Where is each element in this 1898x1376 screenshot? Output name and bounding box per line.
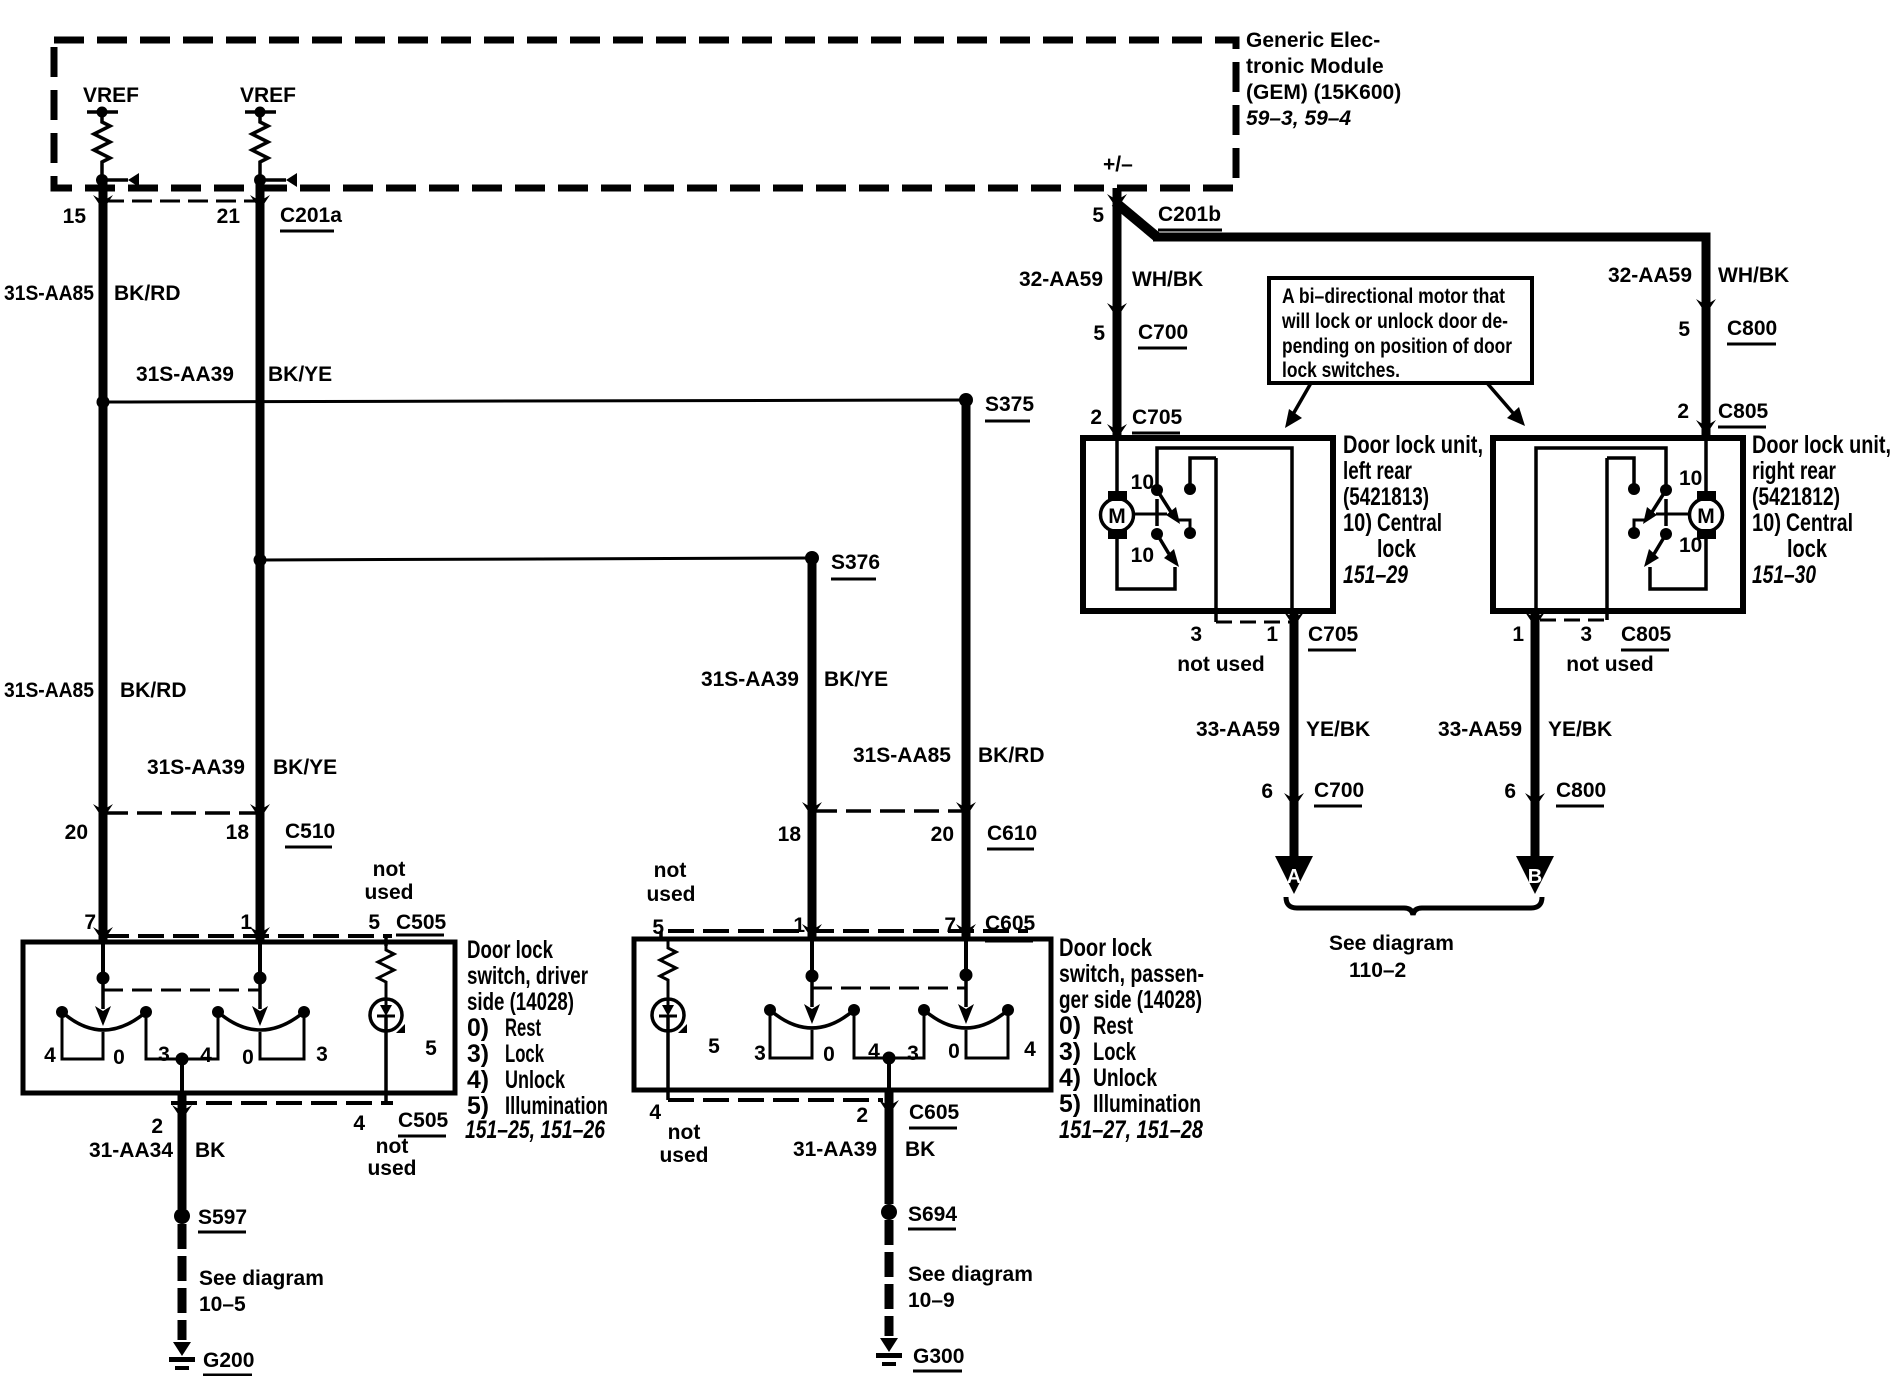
svg-text:BK/YE: BK/YE: [268, 363, 332, 386]
switch 2 rocker arc (driver): [218, 1012, 304, 1030]
off-page arrow A: [1275, 856, 1313, 894]
motor M circle (left unit): [1101, 499, 1134, 532]
svg-text:32-AA59: 32-AA59: [1019, 268, 1103, 291]
svg-text:5: 5: [1678, 318, 1690, 341]
label wire 33-AA59 YE/BK (left): [1196, 718, 1370, 741]
switch 2 rocker arc (passenger): [924, 1010, 1008, 1028]
svg-text:10–9: 10–9: [908, 1289, 955, 1312]
splice S694 label: [908, 1203, 957, 1229]
connector C805 label (bottom): [1621, 623, 1672, 650]
pin arrowhead C605 pin 7: [956, 924, 976, 939]
svg-text:3: 3: [316, 1043, 328, 1066]
label not used above driver pin 5: [364, 858, 413, 904]
label wire 32-AA59 WH/BK (left): [1019, 268, 1203, 291]
pin arrowhead C800 pin 6: [1525, 793, 1545, 808]
svg-text:10: 10: [1131, 471, 1154, 494]
svg-text:4: 4: [868, 1040, 880, 1063]
svg-text:M: M: [1697, 505, 1715, 528]
svg-text:33-AA59: 33-AA59: [1438, 718, 1522, 741]
node junction dot pin 1: [254, 972, 267, 985]
switch pivot dot lower 10 (right unit): [1660, 528, 1672, 540]
svg-text:3: 3: [1580, 623, 1592, 646]
connector C800 label: [1727, 317, 1777, 344]
wire pin 2 to motor (right unit): [1704, 438, 1708, 494]
svg-text:C805: C805: [1718, 400, 1769, 423]
pin arrowhead C605 pin 1: [802, 924, 822, 939]
wire splice S375 horizontal run to passenger switch pin 7: [103, 400, 966, 402]
svg-text:C705: C705: [1132, 406, 1183, 429]
svg-text:Generic Elec-: Generic Elec-: [1246, 29, 1380, 52]
switch box: door lock switch passenger side (14028): [634, 939, 1051, 1090]
svg-text:Unlock: Unlock: [505, 1066, 565, 1094]
svg-text:0: 0: [242, 1046, 254, 1069]
svg-text:3): 3): [467, 1040, 489, 1068]
node pin 2 junction dot (passenger): [883, 1052, 896, 1065]
node junction dot pin 7: [97, 972, 110, 985]
svg-text:10: 10: [1131, 544, 1154, 567]
connector C505 bottom dashed line: [171, 1101, 393, 1105]
contact dot 4 (sw1 passenger): [848, 1004, 860, 1016]
svg-text:1: 1: [1512, 623, 1524, 646]
contact dot 3 (sw1 driver): [140, 1006, 152, 1018]
connector C705 label (bottom): [1308, 623, 1359, 650]
connector C510 dashed line: [103, 811, 260, 815]
svg-text:WH/BK: WH/BK: [1132, 268, 1203, 291]
node pin 2 junction dot (driver): [176, 1053, 189, 1066]
svg-text:33-AA59: 33-AA59: [1196, 718, 1280, 741]
pin arrowhead C805 pin 2: [1696, 420, 1716, 435]
svg-text:5: 5: [708, 1035, 720, 1058]
svg-text:18: 18: [226, 821, 250, 844]
wire input arrow at VREF2: [260, 173, 297, 187]
splice S597 dot: [174, 1208, 190, 1224]
wire motor bottom return to lower switch (left unit): [1117, 539, 1175, 589]
svg-text:C705: C705: [1308, 623, 1359, 646]
switch pivot dot upper 10 (right unit): [1660, 484, 1672, 496]
svg-text:32-AA59: 32-AA59: [1608, 264, 1692, 287]
node junction dot on wire 15 at S375: [97, 396, 110, 409]
node junction dot pin15: [96, 174, 108, 186]
svg-text:C201b: C201b: [1158, 203, 1221, 226]
note arrow to right rear unit: [1487, 383, 1525, 426]
svg-text:See diagram: See diagram: [908, 1263, 1033, 1286]
svg-text:C510: C510: [285, 820, 335, 843]
svg-text:BK: BK: [905, 1138, 935, 1161]
svg-text:C201a: C201a: [280, 204, 342, 227]
resistor R-VREF2 (pull-up inside GEM): [252, 112, 268, 176]
lamp illumination circle (driver): [370, 999, 402, 1031]
wire pin 4 stub below box (driver): [384, 1093, 388, 1103]
wire pin 4 stub below box (passenger): [666, 1090, 670, 1100]
svg-text:4: 4: [1024, 1038, 1036, 1061]
wire pin 2 inside box (passenger): [887, 1058, 891, 1090]
wire motor bottom return to lower switch (right unit): [1650, 539, 1706, 589]
switch pivot dot upper 10 (left unit): [1151, 484, 1163, 496]
contact dot upper-mid (left unit): [1184, 483, 1196, 495]
svg-text:not: not: [373, 858, 406, 881]
svg-text:BK/RD: BK/RD: [120, 679, 187, 702]
svg-text:Door lock: Door lock: [467, 936, 553, 964]
lamp internal arrow (driver): [377, 1000, 395, 1016]
label wire 33-AA59 YE/BK (right): [1438, 718, 1612, 741]
connector C510 label: [285, 820, 335, 847]
label not used below pin 4 (passenger): [659, 1121, 708, 1167]
ground G300 label: [913, 1345, 964, 1371]
contact dot lower-mid (left unit): [1184, 527, 1196, 539]
svg-text:A bi–directional motor that: A bi–directional motor that: [1282, 285, 1505, 308]
wire motor link bar (left unit): [1133, 513, 1167, 516]
connector C700 label: [1138, 321, 1188, 348]
svg-text:C800: C800: [1556, 779, 1606, 802]
wire U link sw1-4 to sw2-3 with pin2 takeoff (passenger): [854, 1010, 924, 1058]
svg-text:151–27, 151–28: 151–27, 151–28: [1059, 1116, 1203, 1144]
wiper arrow switch 2 (driver): [252, 978, 268, 1026]
svg-text:21: 21: [217, 205, 241, 228]
svg-text:G300: G300: [913, 1345, 964, 1368]
label wire 31-AA39 BK: [793, 1138, 935, 1161]
switch armature upper (left unit): [1157, 490, 1171, 512]
svg-text:3: 3: [907, 1042, 919, 1065]
wire pin 1 YE/BK down from right unit: [1531, 611, 1540, 856]
pin arrowhead C201b pin 5: [1107, 194, 1127, 209]
wire lamp to pin 4 (passenger): [666, 1016, 670, 1090]
svg-text:4: 4: [200, 1044, 212, 1067]
wire input arrow at VREF1: [102, 173, 139, 187]
lamp adjust tick (driver): [396, 1024, 405, 1033]
svg-text:31-AA34: 31-AA34: [89, 1139, 173, 1162]
svg-text:2: 2: [1677, 400, 1689, 423]
svg-text:31S-AA39: 31S-AA39: [147, 756, 245, 779]
wire U link sw1-3 to sw2-4 with pin2 takeoff (driver): [146, 1012, 218, 1059]
svg-text:10: 10: [1679, 467, 1702, 490]
wire from S376 down to passenger switch pin 1: [808, 558, 817, 939]
svg-text:switch, driver: switch, driver: [467, 962, 588, 990]
svg-text:lock: lock: [1787, 535, 1827, 563]
switch 1 rocker arc (driver): [62, 1012, 146, 1030]
svg-text:1: 1: [240, 911, 252, 934]
svg-text:5: 5: [425, 1037, 437, 1060]
wire bus horizontal to right rear unit: [1153, 237, 1706, 438]
note box: bi-directional motor explanation: [1269, 278, 1532, 383]
svg-text:C800: C800: [1727, 317, 1777, 340]
node junction dot pin 1 (passenger): [806, 970, 819, 983]
connector C605 label (bottom): [909, 1101, 960, 1128]
wire pin 1 inside driver box: [258, 943, 262, 978]
svg-text:(GEM) (15K600): (GEM) (15K600): [1246, 81, 1401, 104]
motor M circle (right unit): [1690, 499, 1723, 532]
resistor R-VREF1 (pull-up inside GEM): [94, 112, 110, 176]
svg-text:5: 5: [652, 916, 664, 939]
svg-text:lock switches.: lock switches.: [1282, 359, 1400, 382]
pin arrowhead below C605 pin 2: [879, 1100, 899, 1115]
wire pin 2 to ground run (passenger, 31-AA39 BK): [885, 1090, 894, 1204]
wire motor link bar (right unit): [1656, 513, 1690, 516]
wire dashed run S694 to G300: [885, 1220, 894, 1336]
label wire 31S-AA39 BK/YE (passenger drop): [701, 668, 888, 691]
svg-text:YE/BK: YE/BK: [1548, 718, 1612, 741]
connector C805 dashed below right unit: [1540, 619, 1607, 622]
inner contact frame (left unit): [1157, 448, 1292, 608]
svg-text:not used: not used: [1566, 653, 1654, 676]
pin arrowhead C705 pin 1: [1284, 612, 1304, 627]
contact dot upper-mid (right unit): [1628, 483, 1640, 495]
unit box: door lock unit left rear: [1083, 438, 1333, 611]
connector C800 label (pin 6): [1556, 779, 1606, 806]
svg-text:0: 0: [948, 1040, 960, 1063]
svg-text:1: 1: [793, 914, 805, 937]
svg-text:Central: Central: [1377, 509, 1442, 537]
svg-text:151–25, 151–26: 151–25, 151–26: [465, 1116, 606, 1144]
dashed gang line between switch wipers (passenger): [812, 987, 966, 990]
svg-text:59–3, 59–4: 59–3, 59–4: [1246, 107, 1351, 130]
wire U link contact4 to rest stub (sw1 driver): [62, 1012, 103, 1059]
svg-text:S597: S597: [198, 1206, 247, 1229]
svg-text:ger side (14028): ger side (14028): [1059, 986, 1202, 1014]
svg-text:1: 1: [1266, 623, 1278, 646]
contact dot 3 (sw2 driver): [298, 1006, 310, 1018]
ground G200 label: [203, 1349, 254, 1375]
svg-text:31S-AA85: 31S-AA85: [853, 744, 951, 767]
wiper arrow switch 2 (passenger): [958, 975, 974, 1024]
svg-text:5: 5: [1092, 204, 1104, 227]
splice S375 label: [985, 393, 1034, 421]
svg-text:3): 3): [1059, 1038, 1081, 1066]
svg-text:3: 3: [1190, 623, 1202, 646]
wire pin 3 drop (left unit): [1214, 458, 1218, 622]
svg-text:151–30: 151–30: [1752, 561, 1816, 589]
connector C201a dashed separation line: [104, 200, 260, 203]
svg-text:C605: C605: [985, 912, 1036, 935]
svg-text:4): 4): [1059, 1064, 1081, 1092]
svg-text:B: B: [1528, 866, 1542, 888]
label wire 31S-AA85 BK/RD (upper): [4, 282, 181, 305]
svg-text:C505: C505: [398, 1109, 449, 1132]
svg-text:110–2: 110–2: [1349, 959, 1406, 982]
svg-text:M: M: [1108, 505, 1126, 528]
svg-text:6: 6: [1504, 780, 1516, 803]
svg-text:4: 4: [353, 1112, 365, 1135]
connector C705 dashed below left unit: [1216, 621, 1290, 624]
splice S375 dot: [959, 393, 973, 407]
svg-text:0): 0): [1059, 1012, 1081, 1040]
brace under arrows A and B: [1286, 897, 1542, 915]
svg-text:31S-AA85: 31S-AA85: [4, 679, 94, 702]
svg-text:5: 5: [1093, 322, 1105, 345]
svg-text:(5421812): (5421812): [1752, 483, 1840, 511]
svg-text:Door lock: Door lock: [1059, 934, 1152, 962]
svg-text:151–29: 151–29: [1343, 561, 1408, 589]
switch armature lower (left unit): [1157, 534, 1169, 554]
connector C505 top dashed line: [103, 934, 392, 938]
svg-text:used: used: [364, 881, 413, 904]
svg-text:not: not: [668, 1121, 701, 1144]
svg-text:6: 6: [1261, 780, 1273, 803]
connector C610 dashed line: [812, 809, 966, 813]
svg-text:BK/YE: BK/YE: [824, 668, 888, 691]
svg-text:left rear: left rear: [1343, 457, 1412, 485]
splice S694 dot: [881, 1204, 897, 1220]
contact dot lower-mid (right unit): [1628, 527, 1640, 539]
svg-text:3: 3: [158, 1043, 170, 1066]
svg-text:See diagram: See diagram: [199, 1267, 324, 1290]
svg-text:2: 2: [151, 1115, 163, 1138]
node VREF1 terminal bar and dot: [87, 107, 118, 118]
label wire 31S-AA39 BK/YE (upper): [136, 363, 332, 386]
pin arrowhead C610 pin 20: [956, 802, 976, 817]
svg-text:will lock or unlock door de-: will lock or unlock door de-: [1281, 310, 1508, 333]
ground G200 symbol: [169, 1342, 195, 1370]
label not used below pin 4 (driver): [367, 1135, 416, 1180]
svg-text:used: used: [367, 1157, 416, 1180]
wire pin 7 inside driver box: [101, 943, 105, 978]
connector C610 label: [987, 822, 1037, 849]
svg-text:VREF: VREF: [240, 84, 296, 107]
wire lamp to pin 4 (driver): [384, 1016, 388, 1093]
svg-text:side (14028): side (14028): [467, 988, 574, 1016]
wire U link contact3 to rest stub (sw1 passenger): [770, 1010, 812, 1058]
svg-text:S375: S375: [985, 393, 1034, 416]
connector C605 label (top): [985, 912, 1036, 941]
svg-text:Illumination: Illumination: [1093, 1090, 1201, 1118]
svg-text:not: not: [654, 859, 687, 882]
wire pin 2 inside box (driver): [180, 1059, 184, 1093]
off-page arrow B: [1516, 856, 1554, 894]
contact dot 4 (sw1 driver): [56, 1006, 68, 1018]
svg-text:7: 7: [84, 911, 96, 934]
wire dashed run S597 to G200: [178, 1224, 187, 1340]
svg-text:0: 0: [113, 1046, 125, 1069]
svg-text:2: 2: [1090, 406, 1102, 429]
svg-text:used: used: [646, 883, 695, 906]
label GEM title text: [1246, 29, 1401, 130]
svg-text:C505: C505: [396, 911, 447, 934]
svg-text:Central: Central: [1786, 509, 1853, 537]
svg-text:Rest: Rest: [505, 1014, 541, 1042]
motor M terminals (right unit): [1697, 491, 1716, 501]
wiper arrow switch 1 (passenger): [804, 976, 820, 1024]
label block door lock switch passenger side: [1059, 934, 1204, 1144]
splice S597 label: [198, 1206, 247, 1232]
wire branch diagonal from pin 5 to bus: [1115, 202, 1157, 237]
svg-text:C610: C610: [987, 822, 1037, 845]
switch 1 rocker arc (passenger): [770, 1010, 854, 1028]
lamp illumination circle (passenger): [652, 999, 684, 1031]
connector C505 label (bottom): [398, 1109, 449, 1136]
svg-text:C700: C700: [1314, 779, 1364, 802]
svg-text:20: 20: [65, 821, 88, 844]
svg-text:not used: not used: [1177, 653, 1265, 676]
splice S376 dot: [805, 551, 819, 565]
switch armature lower (right unit): [1654, 534, 1666, 554]
svg-text:18: 18: [778, 823, 802, 846]
note arrow to left rear unit: [1285, 383, 1311, 428]
connector C505 label (top): [396, 911, 447, 935]
contact dot 3 (sw1 passenger): [764, 1004, 776, 1016]
svg-text:BK/RD: BK/RD: [978, 744, 1045, 767]
svg-text:15: 15: [63, 205, 87, 228]
svg-text:(5421813): (5421813): [1343, 483, 1429, 511]
wire pin 1 inside passenger box: [810, 940, 814, 976]
svg-text:used: used: [659, 1144, 708, 1167]
label wire 31S-AA85 BK/RD (passenger drop): [853, 744, 1045, 767]
alternative contact stub (right unit): [1607, 458, 1634, 489]
wire pin 2 to motor (left unit): [1115, 438, 1119, 494]
label block door lock unit right rear: [1752, 431, 1891, 589]
svg-text:S694: S694: [908, 1203, 957, 1226]
svg-text:A: A: [1287, 866, 1301, 888]
wire pin 1 YE/BK down from left unit: [1290, 611, 1299, 856]
connector C605 top dashed line: [668, 929, 1028, 933]
label see diagram 10-9: [908, 1263, 1033, 1312]
svg-text:0: 0: [823, 1043, 835, 1066]
module GEM dashed box (Generic Electronic Module): [54, 40, 1236, 188]
wire 31S-AA39 BK/YE from GEM pin 21 down to driver switch pin 1: [256, 180, 265, 943]
switch box: door lock switch driver side (14028): [23, 942, 455, 1093]
dashed gang line between switch wipers (driver): [103, 989, 260, 992]
svg-text:not: not: [376, 1135, 409, 1158]
node VREF2 terminal bar and dot: [245, 107, 276, 118]
wire illumination feed pin 5 (driver): [384, 936, 388, 946]
svg-text:+/–: +/–: [1103, 153, 1133, 176]
svg-text:S376: S376: [831, 551, 880, 574]
wiper arrow switch 1 (driver): [95, 978, 111, 1026]
pin arrowhead C510 pin 20: [93, 804, 113, 819]
svg-text:YE/BK: YE/BK: [1306, 718, 1370, 741]
svg-text:C700: C700: [1138, 321, 1188, 344]
wire pin 2 to ground run (driver, 31-AA34 BK): [178, 1093, 187, 1209]
connector C700 label (pin 6): [1314, 779, 1364, 806]
svg-text:BK/RD: BK/RD: [114, 282, 181, 305]
connector C201a label: [280, 204, 342, 231]
unit box: door lock unit right rear: [1493, 438, 1743, 611]
svg-text:10): 10): [1752, 509, 1781, 537]
contact dot 4 (sw2 passenger): [1002, 1004, 1014, 1016]
contact dot 4 (sw2 driver): [212, 1006, 224, 1018]
node junction dot pin21: [254, 174, 266, 186]
pin arrowhead C705 pin 2: [1107, 424, 1127, 439]
wire pin 3 drop (right unit): [1605, 458, 1609, 620]
svg-text:pending on position of door: pending on position of door: [1282, 335, 1512, 358]
alternative contact stub (left unit): [1190, 458, 1216, 489]
pin arrowhead at C201a pin 21: [250, 195, 270, 210]
pin arrowhead C505 pin 7: [93, 927, 113, 942]
svg-text:See diagram: See diagram: [1329, 932, 1454, 955]
svg-text:Lock: Lock: [505, 1040, 544, 1068]
inner contact frame (right unit): [1536, 448, 1666, 608]
label see diagram 110-2: [1329, 932, 1454, 982]
svg-text:31S-AA39: 31S-AA39: [701, 668, 799, 691]
svg-text:3: 3: [754, 1042, 766, 1065]
wire pin 7 inside passenger box: [964, 940, 968, 975]
label wire 31S-AA39 BK/YE (lower left): [147, 756, 337, 779]
pin arrowhead below C505 pin 2: [172, 1105, 192, 1120]
svg-text:7: 7: [944, 914, 956, 937]
wire U link rest stub to contact3 (sw2 driver): [260, 1012, 304, 1059]
label block door lock switch driver side: [465, 936, 608, 1144]
pin arrowhead C610 pin 18: [802, 802, 822, 817]
svg-text:5: 5: [368, 911, 380, 934]
svg-text:tronic Module: tronic Module: [1246, 55, 1384, 78]
svg-text:lock: lock: [1377, 535, 1416, 563]
svg-text:VREF: VREF: [83, 84, 139, 107]
switch armature upper (right unit): [1652, 490, 1666, 512]
label wire 31-AA34 BK: [89, 1139, 225, 1162]
svg-text:31S-AA39: 31S-AA39: [136, 363, 234, 386]
svg-text:Door lock unit,: Door lock unit,: [1752, 431, 1891, 459]
connector C705 label: [1132, 406, 1183, 433]
svg-text:BK: BK: [195, 1139, 225, 1162]
connector C201b label: [1158, 203, 1222, 230]
